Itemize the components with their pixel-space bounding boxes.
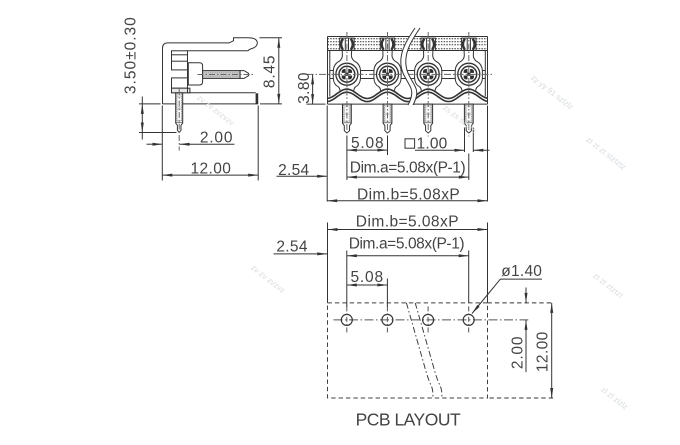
front view: top band texture lines xyxy=(328,39,488,49)
front view position 3: boss outline xyxy=(415,51,442,91)
dimension 12.00 pcb xyxy=(488,303,555,398)
front view position 1: vertical centerline xyxy=(346,32,348,137)
dimension 3.80 xyxy=(296,72,325,104)
svg-text:Dim.b=5.08xP: Dim.b=5.08xP xyxy=(357,187,460,204)
pcb layout: hole 3 xyxy=(423,306,434,333)
svg-text:2.00: 2.00 xyxy=(509,336,526,369)
front view position 1: screw outer circle xyxy=(336,63,358,85)
dimension Dim.b front xyxy=(327,106,487,204)
front view: break line left xyxy=(401,28,415,105)
front view position 1: boss outline xyxy=(333,51,360,91)
dimension 5.08 pcb xyxy=(347,269,388,307)
front view position 3: vertical centerline xyxy=(427,32,429,137)
dimension 3.50±0.30 xyxy=(122,16,176,139)
front view: horizontal centerline through screws xyxy=(307,73,494,75)
front view position 1: solder pin xyxy=(343,104,352,133)
dimension Dim.a pcb xyxy=(347,236,469,307)
pcb layout: horizontal centerline through holes xyxy=(334,319,529,321)
svg-text:Dim.a=5.08x(P-1): Dim.a=5.08x(P-1) xyxy=(350,160,466,177)
svg-text:2.00: 2.00 xyxy=(200,130,233,147)
dimension 5.08 (pin pitch, front) xyxy=(347,135,388,180)
svg-text:12.00: 12.00 xyxy=(534,331,551,372)
dimension square 1.00 (pin size) xyxy=(405,128,490,153)
dimension 2.54 pcb xyxy=(274,238,328,255)
dimension 12.00 xyxy=(162,106,258,181)
front view position 4: screw inner circle xyxy=(461,66,477,82)
pcb layout: break line left xyxy=(406,303,433,398)
front view position 4: barrel at top band xyxy=(462,38,476,50)
side view: lower wire-entry block xyxy=(172,78,190,93)
front view position 4: boss outline xyxy=(455,51,482,91)
svg-text:2.54: 2.54 xyxy=(276,238,307,255)
front view position 2: barrel at top band xyxy=(380,38,394,50)
front view position 3: screw outer circle xyxy=(417,63,439,85)
pcb layout: hole 2 xyxy=(382,306,393,333)
dimension 8.45 xyxy=(260,38,283,104)
svg-text:PCB LAYOUT: PCB LAYOUT xyxy=(356,410,461,430)
svg-text:Dim.b=5.08xP: Dim.b=5.08xP xyxy=(356,214,459,231)
svg-text:5.08: 5.08 xyxy=(351,269,384,286)
front view position 1: screw inner circle xyxy=(339,66,355,82)
side view: horizontal pin tip xyxy=(240,71,249,79)
side view: right bottom wall (dark bar) xyxy=(256,93,259,104)
front view position 1: barrel at top band xyxy=(340,38,354,50)
side view: clamp block xyxy=(188,63,202,85)
svg-text:12.00: 12.00 xyxy=(191,161,232,178)
front view position 2: screw drive pattern xyxy=(382,69,393,80)
front view position 4: vertical centerline xyxy=(468,32,470,137)
svg-text:5.08: 5.08 xyxy=(351,135,384,152)
front view position 3: screw inner circle xyxy=(420,66,436,82)
svg-text:ø1.40: ø1.40 xyxy=(501,263,542,280)
svg-text:2.54: 2.54 xyxy=(278,162,309,179)
side view: inner wall xyxy=(187,51,189,93)
side view: horizontal pin centerline xyxy=(198,74,254,76)
svg-text:3.80: 3.80 xyxy=(296,72,313,104)
pcb layout: break line right xyxy=(415,303,442,398)
dimension 2.00 pcb xyxy=(509,288,527,373)
dimension 2.54 (front) xyxy=(277,162,328,179)
front view position 4: solder pin xyxy=(464,104,473,133)
side view: horizontal mating pin shaft xyxy=(203,71,241,79)
front view: break line right xyxy=(406,28,420,105)
front view position 2: vertical centerline xyxy=(387,32,389,137)
svg-text:3.50±0.30: 3.50±0.30 xyxy=(122,16,139,94)
front view position 3: screw drive pattern xyxy=(423,69,434,80)
front view position 4: screw drive pattern xyxy=(463,69,474,80)
front view: break (interruption) band xyxy=(401,28,420,105)
front view position 2: solder pin xyxy=(383,104,392,133)
svg-text:Dim.a=5.08x(P-1): Dim.a=5.08x(P-1) xyxy=(349,236,465,253)
front view position 3: solder pin xyxy=(424,104,433,133)
front view position 2: screw outer circle xyxy=(377,63,399,85)
pcb layout: board outline (dashed) xyxy=(328,303,488,398)
side view: vertical pin centerline xyxy=(178,89,180,151)
dimension Dim.a front xyxy=(347,154,469,181)
front view: scalloped lower edge xyxy=(328,89,488,102)
side view: connector body outline xyxy=(163,38,259,104)
front view: web lines between positions xyxy=(330,71,486,79)
front view position 2: boss outline xyxy=(374,51,401,91)
front view position 1: screw drive pattern xyxy=(342,69,353,80)
dimension 2.00 xyxy=(147,130,235,147)
svg-text:1.00: 1.00 xyxy=(417,136,448,153)
front view position 3: barrel at top band xyxy=(421,38,435,50)
pcb layout: hole 4 xyxy=(463,306,474,333)
front view position 4: screw outer circle xyxy=(458,63,480,85)
side view: upper wire-entry block xyxy=(172,51,188,70)
pcb layout: hole 1 xyxy=(341,306,352,333)
svg-text:8.45: 8.45 xyxy=(262,55,279,88)
front view: body outline and top band xyxy=(328,37,488,105)
front view position 2: screw inner circle xyxy=(380,66,396,82)
dimension Dim.b pcb xyxy=(328,214,488,303)
dimension diameter 1.40 leader xyxy=(472,263,542,313)
watermark fragments xyxy=(195,73,629,412)
side view: vertical PCB pin xyxy=(176,93,183,133)
